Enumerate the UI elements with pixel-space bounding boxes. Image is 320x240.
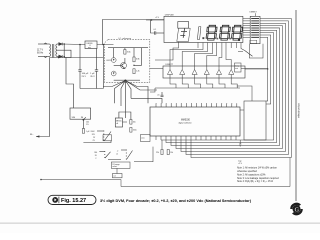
decoder top pin: [255, 13, 257, 16]
overflow half-digit package: [178, 22, 189, 29]
svg-text:150k: 150k: [133, 129, 137, 131]
wire regulator output +5V: [97, 44, 114, 46]
decimal point after hundreds: [217, 38, 219, 40]
transformer T1 core: [52, 44, 54, 58]
wire bottom bus 1: [41, 158, 290, 187]
resistor R9: [167, 150, 169, 155]
plus-minus-one indicator segments: [180, 29, 187, 38]
buffer amp A4: [204, 70, 209, 75]
page border rule right: [295, 10, 297, 201]
diode D1: [59, 43, 62, 46]
capacitor C1 100uF: [79, 45, 81, 70]
svg-text:Note 1: All resistors 1/4 W ±5: Note 1: All resistors 1/4 W ±5% carbon: [237, 167, 278, 170]
decimal point after 1: [202, 37, 204, 39]
resistor R8: [161, 150, 163, 155]
buffer amp A3: [192, 70, 197, 75]
svg-text:DS8877: DS8877: [166, 64, 174, 66]
wire center tap to common: [50, 50, 72, 57]
zener D4: [111, 71, 116, 76]
wire buffer box left taps: [150, 68, 163, 70]
svg-text:22k: 22k: [156, 152, 159, 154]
wire star ray 3: [121, 81, 125, 107]
wire cathode tie: [63, 44, 65, 57]
oscillator component box: [115, 118, 122, 127]
svg-text:otherwise specified: otherwise specified: [237, 170, 258, 173]
wire range bus to AD: [134, 147, 153, 162]
wire segment routing harness: [170, 48, 231, 66]
svg-text:MM5330: MM5330: [181, 120, 191, 122]
dashed boundary voltage reference module: [105, 40, 150, 83]
svg-text:zero: zero: [141, 137, 144, 140]
svg-text:.01: .01: [157, 95, 160, 97]
AD IC top pins: [156, 103, 237, 107]
resistor R7: [130, 128, 132, 133]
node rectifier cathode top: [63, 43, 65, 45]
wire tap out to right: [134, 48, 142, 66]
decoder internal pin bars: [251, 19, 259, 38]
wire top pin bus: [156, 102, 237, 104]
wire Q1 base to zener: [114, 65, 122, 67]
trimmer box A: [103, 135, 112, 141]
auxiliary box left: [235, 63, 242, 72]
wire common down to input LO: [36, 58, 50, 137]
wire decoder to display segment lines: [243, 19, 250, 38]
wire aux to bundle: [241, 68, 268, 70]
wire buffer box right out: [245, 68, 268, 70]
wire S1 interlink: [108, 159, 121, 161]
wire +5V top run to display: [103, 20, 165, 45]
wire secondary bottom to D2: [57, 56, 59, 58]
wire star ray 4: [124, 81, 126, 119]
A/D converter IC MM5330: [150, 107, 240, 136]
transformer T1 secondary (center-tapped): [56, 44, 57, 56]
latch IC box: [244, 101, 266, 140]
node analog common star point: [124, 80, 126, 82]
publisher logo: [290, 203, 303, 216]
capacitor C3 at display: [146, 19, 164, 21]
seven-segment digit hundreds "8": [209, 25, 216, 27]
wire corner group to AD top: [237, 86, 252, 101]
wire S1a pole: [103, 141, 111, 143]
svg-text:0.1: 0.1: [154, 29, 157, 31]
dp switch wiper: [245, 51, 253, 57]
wire star ray 5: [125, 81, 131, 99]
node regulator output: [103, 44, 105, 46]
wire dp line down: [155, 42, 179, 60]
svg-text:G: G: [295, 207, 300, 213]
svg-text:10k: 10k: [133, 121, 136, 123]
decimal point after tens: [229, 38, 231, 40]
trimmer box B: [141, 135, 151, 142]
svg-text:15k: 15k: [170, 152, 173, 154]
node attenuator junction: [83, 119, 85, 121]
diode D2: [59, 55, 62, 58]
svg-text:2: 2: [95, 158, 96, 160]
node divider tap: [133, 65, 134, 66]
node rectifier cathode bottom: [63, 56, 65, 58]
svg-text:clk: clk: [116, 123, 118, 125]
buffer amp A1: [167, 70, 172, 75]
wire star ray 6: [125, 81, 148, 104]
wire bundle vertical runs: [161, 100, 291, 158]
svg-text:DISPLAY: DISPLAY: [165, 14, 175, 17]
wire reference top rail: [108, 47, 148, 49]
decoder-driver IC DM8857: [250, 16, 260, 43]
wire oscillator wiring: [119, 112, 131, 120]
transistor Q1: [121, 63, 127, 69]
svg-text:digital voltmeter: digital voltmeter: [179, 122, 193, 125]
svg-text:Note 2: All capacitors ±10%: Note 2: All capacitors ±10%: [237, 173, 265, 176]
wire AC neutral: [38, 56, 50, 58]
dp range switch contacts: [238, 50, 243, 52]
resistor R5: [133, 69, 135, 74]
voltage regulator U1 LM309: [85, 41, 97, 49]
svg-text:1%: 1%: [86, 124, 89, 126]
input buffer block U2: [70, 108, 91, 119]
svg-text:3.6k: 3.6k: [127, 52, 131, 54]
svg-text:select: select: [112, 165, 117, 168]
svg-text:200: 200: [94, 152, 97, 154]
AD IC bottom pins: [156, 136, 236, 140]
display module box: [164, 16, 243, 42]
wire common rail right: [64, 57, 103, 58]
wire right divider branch: [133, 48, 135, 57]
switch S1c contacts: [121, 149, 126, 151]
node regulator input: [79, 44, 81, 46]
node common left: [58, 57, 59, 58]
svg-text:LM113: LM113: [106, 60, 111, 62]
wire AC hot: [38, 43, 50, 45]
svg-text:Fig. 15.27: Fig. 15.27: [61, 198, 86, 204]
wire AD to latch: [240, 109, 244, 111]
wire display cathode pins: [198, 43, 236, 49]
svg-text:25 V: 25 V: [82, 76, 87, 78]
wire attenuator bottom bus: [83, 142, 103, 144]
wire wafer down: [116, 168, 118, 173]
wire reference bottom rail: [114, 79, 140, 81]
resistor R6: [130, 120, 132, 125]
wire R8 R9 to AD pins: [161, 140, 163, 150]
svg-text:10M: 10M: [72, 117, 76, 119]
svg-text:x1: x1: [116, 154, 118, 156]
resistor R2: [82, 129, 84, 134]
wire star ray 2: [115, 81, 126, 104]
AC plug terminals: [44, 43, 47, 58]
wire osc output to IC: [123, 121, 128, 123]
wire star ray 7: [125, 81, 157, 91]
input LO terminal arrow: [36, 135, 39, 137]
svg-text:60 Hz: 60 Hz: [37, 51, 44, 54]
svg-text:3½ digit DVM, Four decade; ±0.: 3½ digit DVM, Four decade; ±0.2, +0.2, ±…: [100, 198, 252, 203]
leading digit one: [197, 27, 201, 40]
svg-text:Note 3: Low leakage capacitors: Note 3: Low leakage capacitors required: [237, 177, 279, 180]
ground symbol near latch: [239, 144, 241, 146]
switch wafer box S1: [111, 162, 130, 168]
node latch in: [241, 109, 243, 111]
faint page fold line bottom: [0, 222, 320, 224]
switch wiper arrow at attenuator: [83, 117, 85, 120]
wire cross bus y88: [155, 87, 240, 89]
svg-text:1.2k: 1.2k: [136, 71, 140, 73]
svg-text:20: 20: [95, 155, 97, 157]
badge play icon: [52, 197, 58, 203]
wire ground bus under supply: [80, 88, 103, 90]
resistor R4: [133, 57, 135, 62]
capacitor C4: [161, 92, 163, 95]
seven-segment digit units "8": [234, 25, 241, 27]
svg-text:I.C. reference: I.C. reference: [119, 37, 132, 40]
wire zener branch: [113, 48, 115, 58]
buffer amp A2: [180, 70, 185, 75]
svg-text:Note 4: R₁R₂/(R₁ + R₂) = R₃ ≈: Note 4: R₁R₂/(R₁ + R₂) = R₃ ≈ 15 Ω: [237, 180, 273, 183]
wire star ray 1: [103, 81, 125, 87]
caption badge: [48, 195, 96, 204]
range switch S1a: [97, 130, 104, 132]
wire buffer outputs to AD converter: [170, 78, 237, 88]
wire decoder output bundle: [260, 19, 291, 101]
svg-text:reg: reg: [88, 46, 91, 49]
wire +V raw rail: [62, 43, 85, 46]
zener D3 LM113: [111, 58, 116, 63]
svg-text:.2: .2: [117, 151, 119, 153]
segment buffer array box DS75492: [163, 66, 245, 78]
svg-text:electronics: electronics: [297, 103, 301, 118]
resistor R3 bias: [124, 50, 126, 55]
wire +5V feed down left of reference: [102, 45, 104, 89]
transformer T1 primary: [50, 44, 51, 56]
seven-segment digit tens "8": [222, 25, 229, 27]
capacitor C2 1uF: [96, 49, 98, 70]
switch S1b contacts: [99, 151, 104, 153]
node input HI tap: [57, 56, 59, 58]
decimal point after units (dark): [238, 39, 240, 41]
label box S1 detail: [113, 174, 123, 178]
node bus terminal: [40, 179, 42, 181]
wire clock feed: [131, 98, 162, 103]
svg-text:6.8k: 6.8k: [136, 59, 140, 61]
wire decoder bottom to dp area: [249, 44, 263, 58]
buffer amp A6: [229, 70, 234, 75]
wire dp drop from display: [241, 43, 245, 51]
wire Q1 collector/emitter: [124, 58, 126, 63]
wire input HI drop: [66, 58, 74, 109]
wire bus 2: [185, 140, 187, 155]
svg-text:35 V: 35 V: [90, 76, 95, 78]
buffer amp A5: [216, 70, 221, 75]
wire secondary top to D1: [57, 43, 59, 45]
small label box under decoder: [250, 40, 257, 43]
